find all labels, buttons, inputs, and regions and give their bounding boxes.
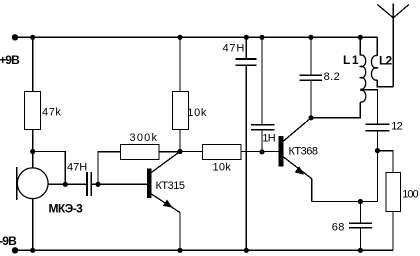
wire L1 tap to C12 [360,90,377,125]
transistor Q1 KT315 [147,152,180,213]
node bottom rail mic [30,248,35,253]
wire antenna vertical [392,4,394,87]
svg-text:300k: 300k [130,132,159,144]
node E emitter net [375,148,380,153]
svg-text:КТ315: КТ315 [156,180,185,192]
node 68 cap top [358,199,363,204]
svg-text:L1: L1 [343,53,360,67]
wire KT315 emitter drop [179,213,181,251]
antenna left prong [377,5,393,18]
svg-text:10k: 10k [187,107,207,119]
wire mic bottom to rail [32,199,34,251]
resistor R1 47k [25,92,41,130]
wire 300k left leg [98,152,120,185]
wire bias feed down to mic output [33,152,66,185]
node bottom rail C6 [358,248,363,253]
microphone MK1 MKE-3 body [17,167,49,200]
svg-text:47H: 47H [223,43,246,55]
svg-text:12: 12 [391,120,402,132]
inductor L1 [360,55,365,102]
node mic bias [30,149,35,154]
wire 47H decoupling top [245,37,247,59]
node top rail C4 [308,35,313,40]
node top rail R1 [30,35,35,40]
svg-text:8.2: 8.2 [324,71,341,83]
svg-text:-9B: -9B [0,234,17,248]
node tank [308,115,313,120]
wire top supply rail [15,36,377,38]
node mic output [63,182,68,187]
svg-text:47H: 47H [67,162,87,174]
capacitor C5 12 plates [366,124,390,130]
svg-text:МКЭ-3: МКЭ-3 [49,201,84,215]
svg-text:100: 100 [402,188,418,200]
terminal -9V [12,247,18,253]
wire bottom supply rail [15,249,393,251]
wire 68 cap bottom to rail [359,228,361,251]
svg-text:+9B: +9B [0,53,20,67]
wire emitter line horizontal [312,201,378,203]
terminal +9V [12,34,18,40]
resistor R4 10k horizontal [203,145,242,160]
wire 300k right to node B [159,151,180,153]
capacitor C2 47H top plates [236,59,257,65]
wire mic output to cap C1 [48,183,86,185]
inductor L2 [371,56,377,81]
svg-text:1H: 1H [262,132,275,144]
wire 1H bottom to base node [261,130,263,152]
resistor R5 100 [386,173,401,212]
wire 47k branch vertical top [32,37,34,91]
node top rail R2 [177,35,182,40]
wire 68 cap top [359,202,361,224]
node bottom rail C2 [244,248,249,253]
node top rail L1 [358,35,363,40]
node base KT315 [95,182,100,187]
wire 1H branch top [261,37,263,124]
wire cap C1 to base KT315 [92,183,147,185]
transistor Q2 KT368 [279,118,312,179]
svg-text:10k: 10k [213,162,232,174]
wire 10k vertical bottom to node B [179,130,181,152]
wire L2 top feed [376,37,378,56]
wire tank node to L1 bottom [311,103,360,118]
wire node to mic top [32,152,34,169]
wire KT368 emitter drop [311,179,313,202]
svg-text:47k: 47k [42,106,62,118]
resistor R3 300k [121,145,160,160]
wire 8.2 branch top [310,37,312,75]
resistor R2 10k vertical [173,92,189,130]
wire 10k vertical top [179,37,181,91]
capacitor C3 1H plates [251,125,275,130]
wire 8.2 bottom to tank node [310,80,312,118]
wire node E to 100 resistor [378,151,393,173]
wire 47k bottom to node [32,130,34,152]
wire C12 bottom to node E [377,131,379,151]
wire 100 resistor bottom to rail [392,212,394,251]
antenna right prong [393,5,409,18]
wire 10k horizontal to base node KT368 [241,151,279,153]
svg-text:КТ368: КТ368 [289,146,318,158]
wire L1 top [359,37,361,55]
svg-text:68: 68 [332,222,345,234]
node base KT368 [259,149,264,154]
wire L2 bottom to antenna [377,80,393,87]
capacitor C1 47H plates [87,172,91,196]
wire 47H decoupling bottom to rail [245,65,247,250]
wire node E down to emitter line [377,151,379,202]
node top rail C2 [244,35,249,40]
node bottom rail KT315 [177,248,182,253]
wire node B to 10k horizontal [180,151,202,153]
svg-text:L2: L2 [379,53,393,67]
capacitor C4 8.2 plates [299,75,322,80]
node top rail C3 [259,35,264,40]
node B collector KT315 [177,149,182,154]
capacitor C6 68 plates [349,223,372,228]
